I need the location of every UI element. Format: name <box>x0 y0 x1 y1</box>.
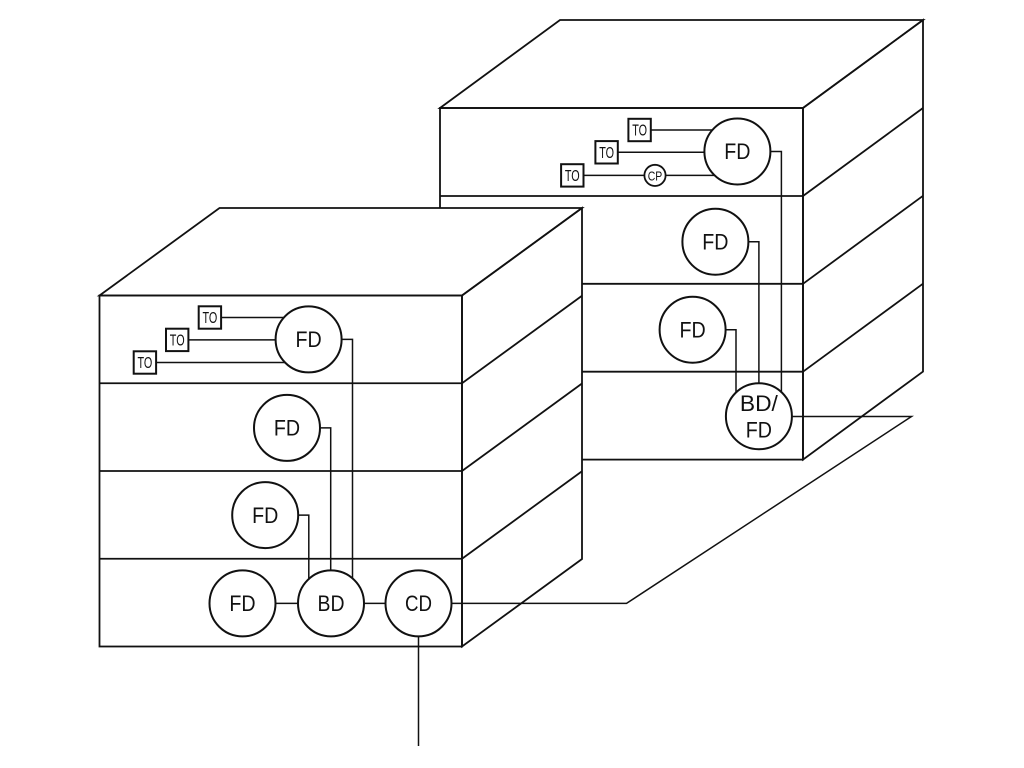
svg-text:TO: TO <box>565 168 580 185</box>
svg-text:FD: FD <box>724 139 750 164</box>
svg-text:TO: TO <box>203 310 218 327</box>
svg-text:CD: CD <box>405 591 432 616</box>
svg-text:FD: FD <box>274 416 300 441</box>
svg-text:BD: BD <box>318 591 345 616</box>
svg-text:FD: FD <box>229 591 255 616</box>
svg-text:TO: TO <box>170 332 185 349</box>
svg-text:TO: TO <box>599 145 614 162</box>
svg-text:FD: FD <box>296 327 322 352</box>
svg-text:FD: FD <box>252 503 278 528</box>
svg-text:FD: FD <box>702 229 728 254</box>
svg-text:BD/: BD/ <box>740 391 779 416</box>
svg-text:TO: TO <box>138 355 153 372</box>
svg-text:TO: TO <box>632 123 647 140</box>
svg-text:FD: FD <box>746 418 772 443</box>
svg-text:CP: CP <box>648 168 663 183</box>
svg-text:FD: FD <box>680 317 706 342</box>
